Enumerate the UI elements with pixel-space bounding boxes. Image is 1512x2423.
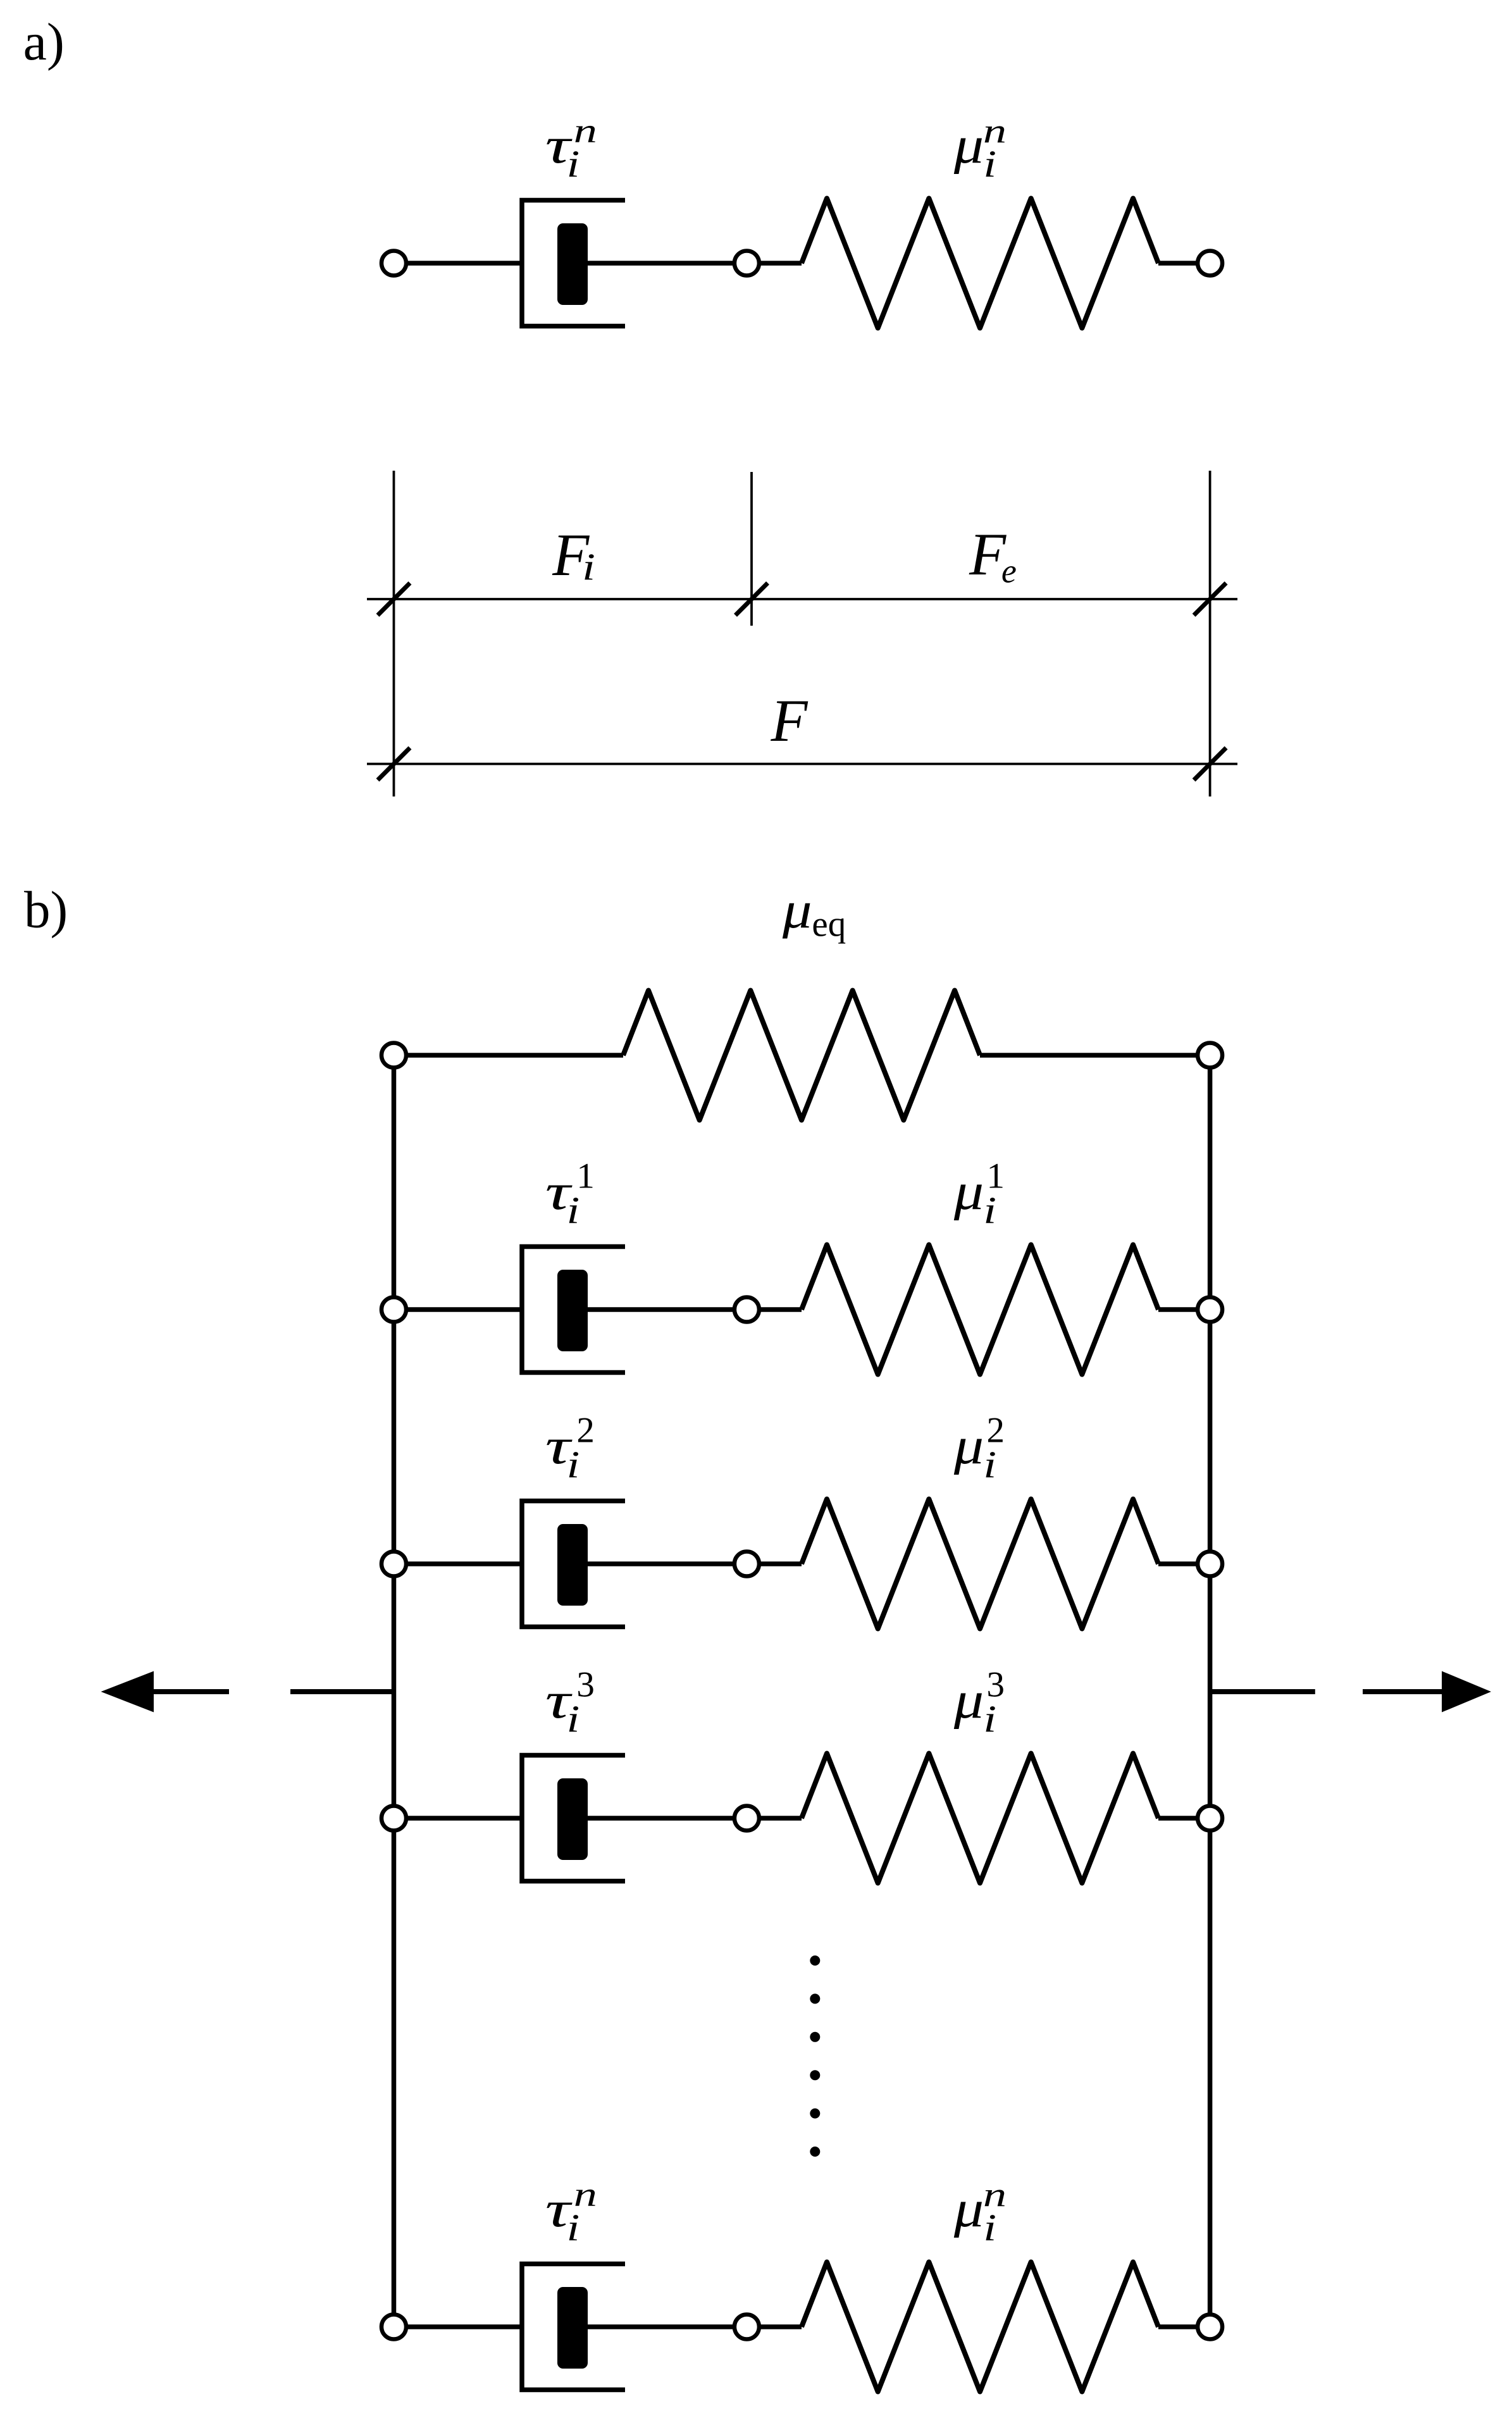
wire: left node to damper (branch n) [394, 2324, 523, 2329]
node circle top-left [381, 1043, 406, 1068]
svg-text:e: e [1001, 552, 1017, 590]
part a damper piston [557, 223, 588, 305]
wire: left node to spring mu_eq [394, 1053, 624, 1058]
svg-text:i: i [983, 2206, 996, 2248]
node circle right (branch 2) [1198, 1552, 1222, 1577]
branch n damper piston [557, 2287, 588, 2369]
wire: left node to damper (branch 2) [394, 1561, 523, 1566]
wire: left node to damper (branch 1) [394, 1307, 523, 1312]
wire stub left of rail [290, 1689, 394, 1694]
wire: middle terminal to spring (part a) [747, 261, 802, 266]
wire: piston rod to middle node (branch n) [588, 2324, 747, 2329]
svg-text:μ: μ [953, 2180, 984, 2238]
svg-text:i: i [567, 1697, 580, 1740]
node circle left (branch 1) [381, 1298, 406, 1322]
node circle right (branch 1) [1198, 1298, 1222, 1322]
terminal circle middle (part a) [734, 251, 759, 276]
dimension tick left lower [378, 748, 410, 780]
ellipsis dots [810, 1955, 820, 2157]
svg-text:μ: μ [953, 1671, 984, 1730]
left force arrow [101, 1671, 230, 1713]
spring (branch n) [802, 2262, 1158, 2392]
svg-text:F: F [771, 687, 809, 754]
node circle middle (branch 2) [734, 1552, 759, 1577]
svg-text:μ: μ [953, 1417, 984, 1475]
wire: spring to right node (branch 2) [1158, 1561, 1210, 1566]
wire: piston rod to middle node (branch 2) [588, 1561, 747, 1566]
svg-text:i: i [582, 545, 595, 588]
right force arrow [1363, 1671, 1491, 1713]
dimension line F [367, 763, 1237, 765]
left rail [392, 1055, 397, 2327]
svg-text:i: i [983, 1443, 996, 1485]
wire: middle node to spring (branch n) [747, 2324, 802, 2329]
dimension tick right lower [1194, 748, 1226, 780]
node circle right (branch 3) [1198, 1806, 1222, 1831]
dimension tick right upper [1194, 583, 1226, 616]
node circle middle (branch 1) [734, 1298, 759, 1322]
svg-text:i: i [983, 1697, 996, 1740]
wire: spring to right node (branch n) [1158, 2324, 1210, 2329]
node circle left (branch 3) [381, 1806, 406, 1831]
svg-text:a): a) [23, 13, 65, 71]
wire stub right of rail [1210, 1689, 1315, 1694]
dimension extension line right [1209, 471, 1211, 796]
svg-text:i: i [983, 142, 996, 185]
spring (branch 1) [802, 1245, 1158, 1375]
node circle top-right [1198, 1043, 1222, 1068]
wire: spring to right node (branch 3) [1158, 1816, 1210, 1821]
branch 2 damper cylinder [522, 1501, 625, 1627]
node circle left (branch n) [381, 2315, 406, 2339]
branch 3 damper cylinder [522, 1756, 625, 1881]
wire: middle node to spring (branch 2) [747, 1561, 802, 1566]
branch n damper cylinder [522, 2264, 625, 2390]
spring mu_i^n (part a) [802, 199, 1158, 328]
wire: spring mu_eq to right node [980, 1053, 1210, 1058]
branch 3 damper piston [557, 1778, 588, 1860]
dimension extension line middle [750, 472, 753, 626]
branch 1 damper cylinder [522, 1247, 625, 1373]
dimension tick left upper [378, 583, 410, 616]
wire: left terminal to damper (part a) [394, 261, 523, 266]
wire: piston rod to middle node (branch 3) [588, 1816, 747, 1821]
node circle middle (branch n) [734, 2315, 759, 2339]
terminal circle right (part a) [1198, 251, 1222, 276]
svg-text:μ: μ [953, 116, 984, 175]
svg-text:μ: μ [953, 1163, 984, 1221]
wire: piston rod to middle node (branch 1) [588, 1307, 747, 1312]
node circle middle (branch 3) [734, 1806, 759, 1831]
wire: spring to right terminal (part a) [1158, 261, 1210, 266]
dimension tick middle upper [736, 583, 768, 616]
wire: middle node to spring (branch 3) [747, 1816, 802, 1821]
svg-text:i: i [567, 2206, 580, 2248]
spring mu_eq [623, 991, 980, 1120]
wire: piston rod to middle terminal (part a) [588, 261, 747, 266]
wire: middle node to spring (branch 1) [747, 1307, 802, 1312]
svg-text:b): b) [24, 880, 68, 938]
part a damper cylinder [522, 201, 625, 326]
svg-text:μ: μ [782, 881, 812, 939]
spring (branch 2) [802, 1499, 1158, 1629]
svg-text:i: i [567, 142, 580, 185]
svg-text:i: i [983, 1189, 996, 1231]
node circle right (branch n) [1198, 2315, 1222, 2339]
right rail [1208, 1055, 1213, 2327]
spring (branch 3) [802, 1754, 1158, 1883]
branch 2 damper piston [557, 1524, 588, 1606]
wire: left node to damper (branch 3) [394, 1816, 523, 1821]
terminal circle left (part a) [381, 251, 406, 276]
svg-text:i: i [567, 1189, 580, 1231]
branch 1 damper piston [557, 1270, 588, 1351]
node circle left (branch 2) [381, 1552, 406, 1577]
dimension extension line left [393, 471, 395, 796]
dimension line Fi/Fe [367, 598, 1237, 600]
svg-text:i: i [567, 1443, 580, 1485]
wire: spring to right node (branch 1) [1158, 1307, 1210, 1312]
svg-text:eq: eq [812, 905, 846, 945]
